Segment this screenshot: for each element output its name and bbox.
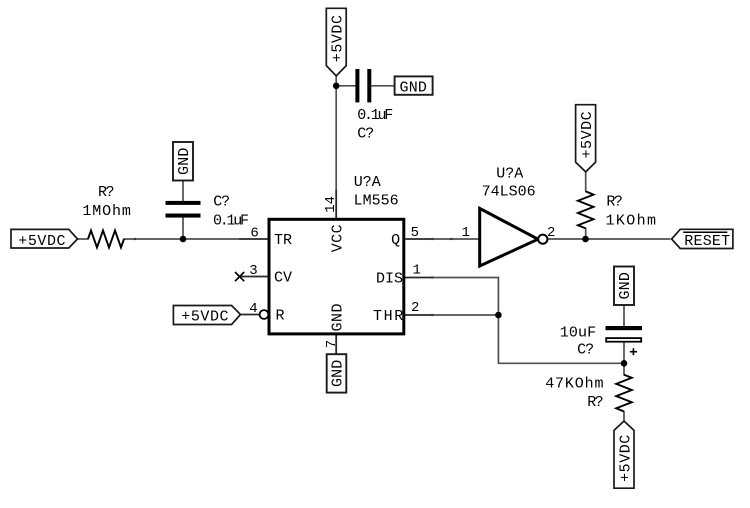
svg-text:3: 3 <box>249 263 257 279</box>
svg-text:0.1uF: 0.1uF <box>213 212 249 229</box>
svg-text:LM556: LM556 <box>354 192 399 209</box>
svg-text:CV: CV <box>274 270 292 287</box>
svg-text:GND: GND <box>400 79 427 96</box>
svg-text:GND: GND <box>617 272 634 299</box>
svg-text:1: 1 <box>413 263 421 279</box>
svg-text:RESET: RESET <box>684 233 730 250</box>
svg-text:R?: R? <box>606 193 623 210</box>
svg-text:GND: GND <box>330 304 347 332</box>
svg-text:6: 6 <box>250 225 258 241</box>
svg-text:1MOhm: 1MOhm <box>82 203 130 220</box>
svg-text:C?: C? <box>577 342 594 359</box>
svg-text:R?: R? <box>98 184 115 201</box>
svg-text:VCC: VCC <box>330 224 347 252</box>
svg-text:+5VDC: +5VDC <box>617 435 634 482</box>
svg-text:+5VDC: +5VDC <box>330 15 347 62</box>
svg-text:Q: Q <box>391 232 400 249</box>
svg-text:47KOhm: 47KOhm <box>545 376 603 393</box>
svg-text:R: R <box>276 308 285 325</box>
svg-text:DIS: DIS <box>376 271 403 288</box>
svg-text:GND: GND <box>176 148 193 175</box>
svg-text:+5VDC: +5VDC <box>181 309 228 326</box>
svg-text:U?A: U?A <box>496 166 523 183</box>
svg-text:GND: GND <box>329 360 346 387</box>
svg-text:U?A: U?A <box>354 174 381 191</box>
svg-text:C?: C? <box>213 194 230 211</box>
svg-text:R?: R? <box>587 394 604 411</box>
svg-text:0.1uF: 0.1uF <box>357 107 393 124</box>
svg-text:4: 4 <box>249 301 257 317</box>
svg-text:1KOhm: 1KOhm <box>606 213 657 230</box>
svg-text:+5VDC: +5VDC <box>18 233 65 250</box>
svg-text:7: 7 <box>324 340 340 348</box>
svg-text:2: 2 <box>411 300 419 316</box>
svg-text:1: 1 <box>462 225 470 241</box>
svg-text:+5VDC: +5VDC <box>579 111 596 158</box>
svg-text:THR: THR <box>373 308 403 325</box>
svg-text:14: 14 <box>323 196 339 213</box>
svg-text:74LS06: 74LS06 <box>482 184 536 201</box>
svg-text:C?: C? <box>357 126 374 143</box>
svg-text:TR: TR <box>274 232 292 249</box>
svg-text:10uF: 10uF <box>560 325 596 342</box>
svg-text:5: 5 <box>411 225 419 241</box>
